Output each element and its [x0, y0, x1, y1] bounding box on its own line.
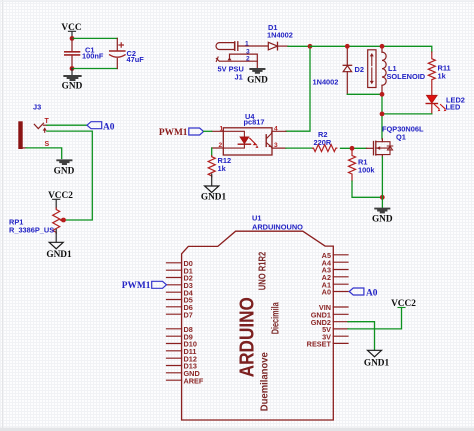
svg-text:D2: D2 [355, 65, 364, 74]
resistor R1 100k [349, 148, 376, 181]
svg-text:UNO R1R2: UNO R1R2 [258, 252, 269, 291]
wire 5V to VCC2 [348, 308, 402, 329]
IC U1 ARDUINOUNO body [182, 214, 334, 421]
wire U4 pin3 to R2 [286, 147, 313, 149]
net flag A0 (to U1 A0) [349, 288, 378, 298]
potentiometer RP1 [9, 208, 64, 235]
diode D2 (flyback) [313, 48, 364, 94]
svg-text:R_3386P_US: R_3386P_US [9, 226, 54, 235]
wire drain up / source down [381, 157, 383, 207]
svg-text:GND: GND [247, 76, 268, 86]
U1 left pins D8-AREF [167, 329, 182, 380]
ground GND1 (under RP1) [46, 230, 72, 261]
wire PWM1 to U4 pin1 [204, 130, 212, 132]
capacitor C2 (polarized) [110, 38, 145, 68]
junction L1 bottom [380, 92, 385, 97]
svg-text:1: 1 [245, 40, 249, 47]
svg-text:A0: A0 [366, 288, 378, 298]
capacitor C1 [65, 38, 104, 68]
net flag PWM1 (to U1 D3) [122, 281, 167, 291]
svg-text:PWM1: PWM1 [122, 281, 151, 291]
junction D2 top [345, 44, 350, 49]
svg-text:U1: U1 [252, 214, 261, 223]
svg-text:GND1: GND1 [364, 359, 390, 369]
junction D1 node [308, 44, 313, 49]
svg-text:GND: GND [372, 215, 393, 225]
svg-text:1N4002: 1N4002 [313, 78, 339, 87]
wire LED2 to drain [382, 113, 432, 115]
resistor R12 [208, 156, 231, 177]
svg-text:220R: 220R [314, 138, 332, 147]
inductor L1 SOLENOID [368, 48, 426, 94]
ground GND (under J1) [247, 69, 268, 86]
wire top rail to R11 [310, 46, 432, 52]
diode D1 1N4002 [267, 23, 293, 50]
svg-text:VCC2: VCC2 [48, 191, 73, 201]
svg-text:A0: A0 [322, 288, 331, 297]
svg-text:S: S [45, 141, 50, 148]
wire R2 to Q1 gate [341, 147, 367, 149]
ground GND (under C1) [62, 69, 83, 92]
junction drain node [380, 112, 385, 117]
ground GND1 (under R12) [201, 174, 227, 202]
junction source node [380, 195, 385, 200]
power port VCC2 (left) [48, 191, 73, 208]
wire R1 bottom to source [352, 181, 382, 197]
svg-text:1N4002: 1N4002 [267, 31, 293, 40]
U1 right pins A5-A0 [333, 255, 348, 292]
svg-text:Q1: Q1 [396, 133, 406, 142]
svg-text:3: 3 [246, 48, 250, 55]
wire D1 to junction and down to U4 pin4 [286, 46, 310, 131]
power port VCC2 (right) [391, 299, 416, 309]
svg-text:pc817: pc817 [244, 118, 265, 127]
wire GND2 to GND1 [348, 322, 375, 350]
svg-text:J3: J3 [33, 103, 41, 112]
svg-text:T: T [45, 118, 50, 125]
svg-text:A0: A0 [103, 122, 115, 132]
svg-text:2: 2 [246, 56, 250, 63]
U1 right pins VIN-RESET [333, 307, 348, 343]
svg-text:GND: GND [54, 167, 75, 177]
svg-text:Duemilanove: Duemilanove [259, 352, 270, 411]
wire J3 switch to RP1 wiper [47, 131, 92, 220]
junction gate/R1 [350, 146, 355, 151]
ground GND (under Q1) [372, 209, 393, 225]
optocoupler U4 pc817 [212, 112, 286, 155]
svg-text:PWM1: PWM1 [159, 128, 188, 138]
power port VCC [61, 23, 81, 38]
transistor Q1 FQP30N06L [367, 125, 424, 158]
svg-text:LED: LED [446, 103, 461, 112]
svg-text:SOLENOID: SOLENOID [387, 72, 426, 81]
wire U4 pin2 to R12 [211, 148, 213, 156]
resistor R2 220R [313, 130, 337, 152]
svg-text:1k: 1k [438, 72, 447, 81]
svg-text:ARDUINOUNO: ARDUINOUNO [252, 223, 303, 232]
svg-text:100nF: 100nF [82, 52, 104, 61]
resistor R11 [428, 52, 450, 87]
junction VCC node [70, 36, 75, 41]
svg-text:ARDUINO: ARDUINO [236, 297, 259, 377]
svg-text:100k: 100k [358, 166, 375, 175]
net flag PWM1 (to U4) [159, 128, 204, 138]
ground GND1 (under U1) [364, 350, 390, 368]
connector J1 (5V PSU barrel jack) [216, 40, 268, 81]
wire bottom rail to C2 [72, 68, 117, 70]
U1 left pins D0-D7 [167, 263, 182, 314]
LED LED2 [426, 88, 465, 114]
svg-text:GND: GND [62, 81, 83, 91]
junction L1 top [380, 44, 385, 49]
wire J3 sleeve to GND [26, 148, 62, 159]
svg-text:1k: 1k [218, 164, 227, 173]
connector J3 (audio jack) [18, 103, 49, 150]
svg-text:RESET: RESET [307, 340, 332, 349]
wire D2/L1 bottom [347, 94, 382, 139]
junction RP1 wiper [61, 218, 66, 223]
svg-text:47uF: 47uF [127, 55, 145, 64]
wire VCC top rail [72, 37, 117, 39]
svg-text:D7: D7 [184, 310, 193, 319]
junction C1 bottom node [70, 66, 75, 71]
ground GND (under J3) [54, 160, 75, 176]
svg-text:GND1: GND1 [201, 193, 227, 203]
net flag A0 (left) [87, 122, 115, 133]
svg-text:GND1: GND1 [46, 250, 72, 260]
svg-text:J1: J1 [235, 73, 243, 82]
wire J3 tip to A0 flag [47, 124, 87, 126]
svg-text:AREF: AREF [184, 376, 204, 385]
svg-text:Diecimila: Diecimila [270, 302, 281, 334]
